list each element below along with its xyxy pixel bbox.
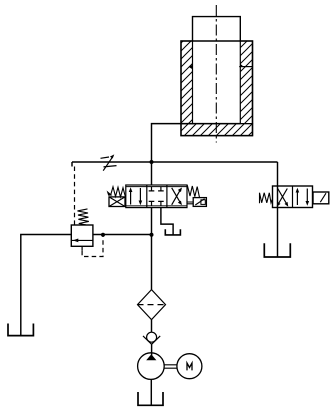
pilot operated valve body (right) [273, 186, 313, 208]
wire main horizontal line [72, 161, 278, 163]
main valve left solenoid [109, 197, 125, 207]
pilot valve straight arrows [296, 188, 310, 206]
main valve left position arrows [129, 187, 142, 205]
pilot valve spring [260, 193, 273, 203]
wire left corner down (solid stub) [71, 162, 73, 167]
cylinder right wall tick [239, 64, 252, 67]
relief valve pilot loop dashed [82, 235, 103, 256]
tank at relief outlet [8, 324, 33, 336]
tank at valve T port [165, 229, 180, 235]
relief valve spring [78, 209, 89, 225]
main valve right solenoid [187, 198, 206, 207]
wire valve top port [151, 162, 153, 185]
wire relief valve inlet [93, 234, 152, 236]
cylinder left wall tick [189, 65, 193, 70]
node pilot loop junction [101, 233, 105, 237]
wire valve bottom port A to pump line [151, 208, 153, 290]
main valve right spring [187, 185, 199, 197]
main valve centre position blocked ports [149, 187, 164, 206]
main valve left spring [107, 187, 126, 197]
cylinder centerline [215, 5, 217, 143]
wire valve tank port [161, 208, 173, 235]
cylinder bottom wall hatch [181, 124, 253, 136]
wire pump suction to tank [150, 379, 152, 405]
wire filter to check valve [151, 320, 153, 333]
wire right riser to pilot valve [277, 162, 279, 186]
cylinder body outline [181, 41, 253, 136]
throttle valve arrow [103, 154, 114, 170]
node relief to main line junction [150, 233, 154, 237]
wire check valve to pump [151, 344, 153, 355]
cylinder right wall hatch [240, 41, 252, 124]
node junction main line / valve riser [150, 160, 154, 164]
pump drive shaft [164, 365, 177, 368]
pilot line dashed riser [74, 167, 76, 226]
filter [138, 290, 166, 320]
check valve [143, 332, 160, 344]
main valve outer body [126, 185, 187, 208]
tank main reservoir [138, 392, 163, 405]
wire cylinder port to main line [152, 124, 241, 162]
tank below pilot valve [264, 243, 290, 257]
throttle valve restriction dashes [101, 157, 117, 167]
wire pilot valve to tank [277, 208, 279, 258]
relief valve body [71, 225, 93, 246]
piston rod [193, 17, 241, 41]
pilot valve crossed arrows [277, 189, 289, 207]
pump P1 [138, 353, 165, 380]
motor M1 [177, 354, 202, 379]
wire pilot valve through line [277, 186, 279, 208]
pilot valve solenoid [313, 192, 329, 204]
cylinder left wall hatch [181, 41, 193, 124]
main valve right position crossed arrows [172, 188, 182, 206]
relief valve pilot stub [81, 246, 83, 250]
wire relief valve outlet to tank [21, 235, 72, 336]
